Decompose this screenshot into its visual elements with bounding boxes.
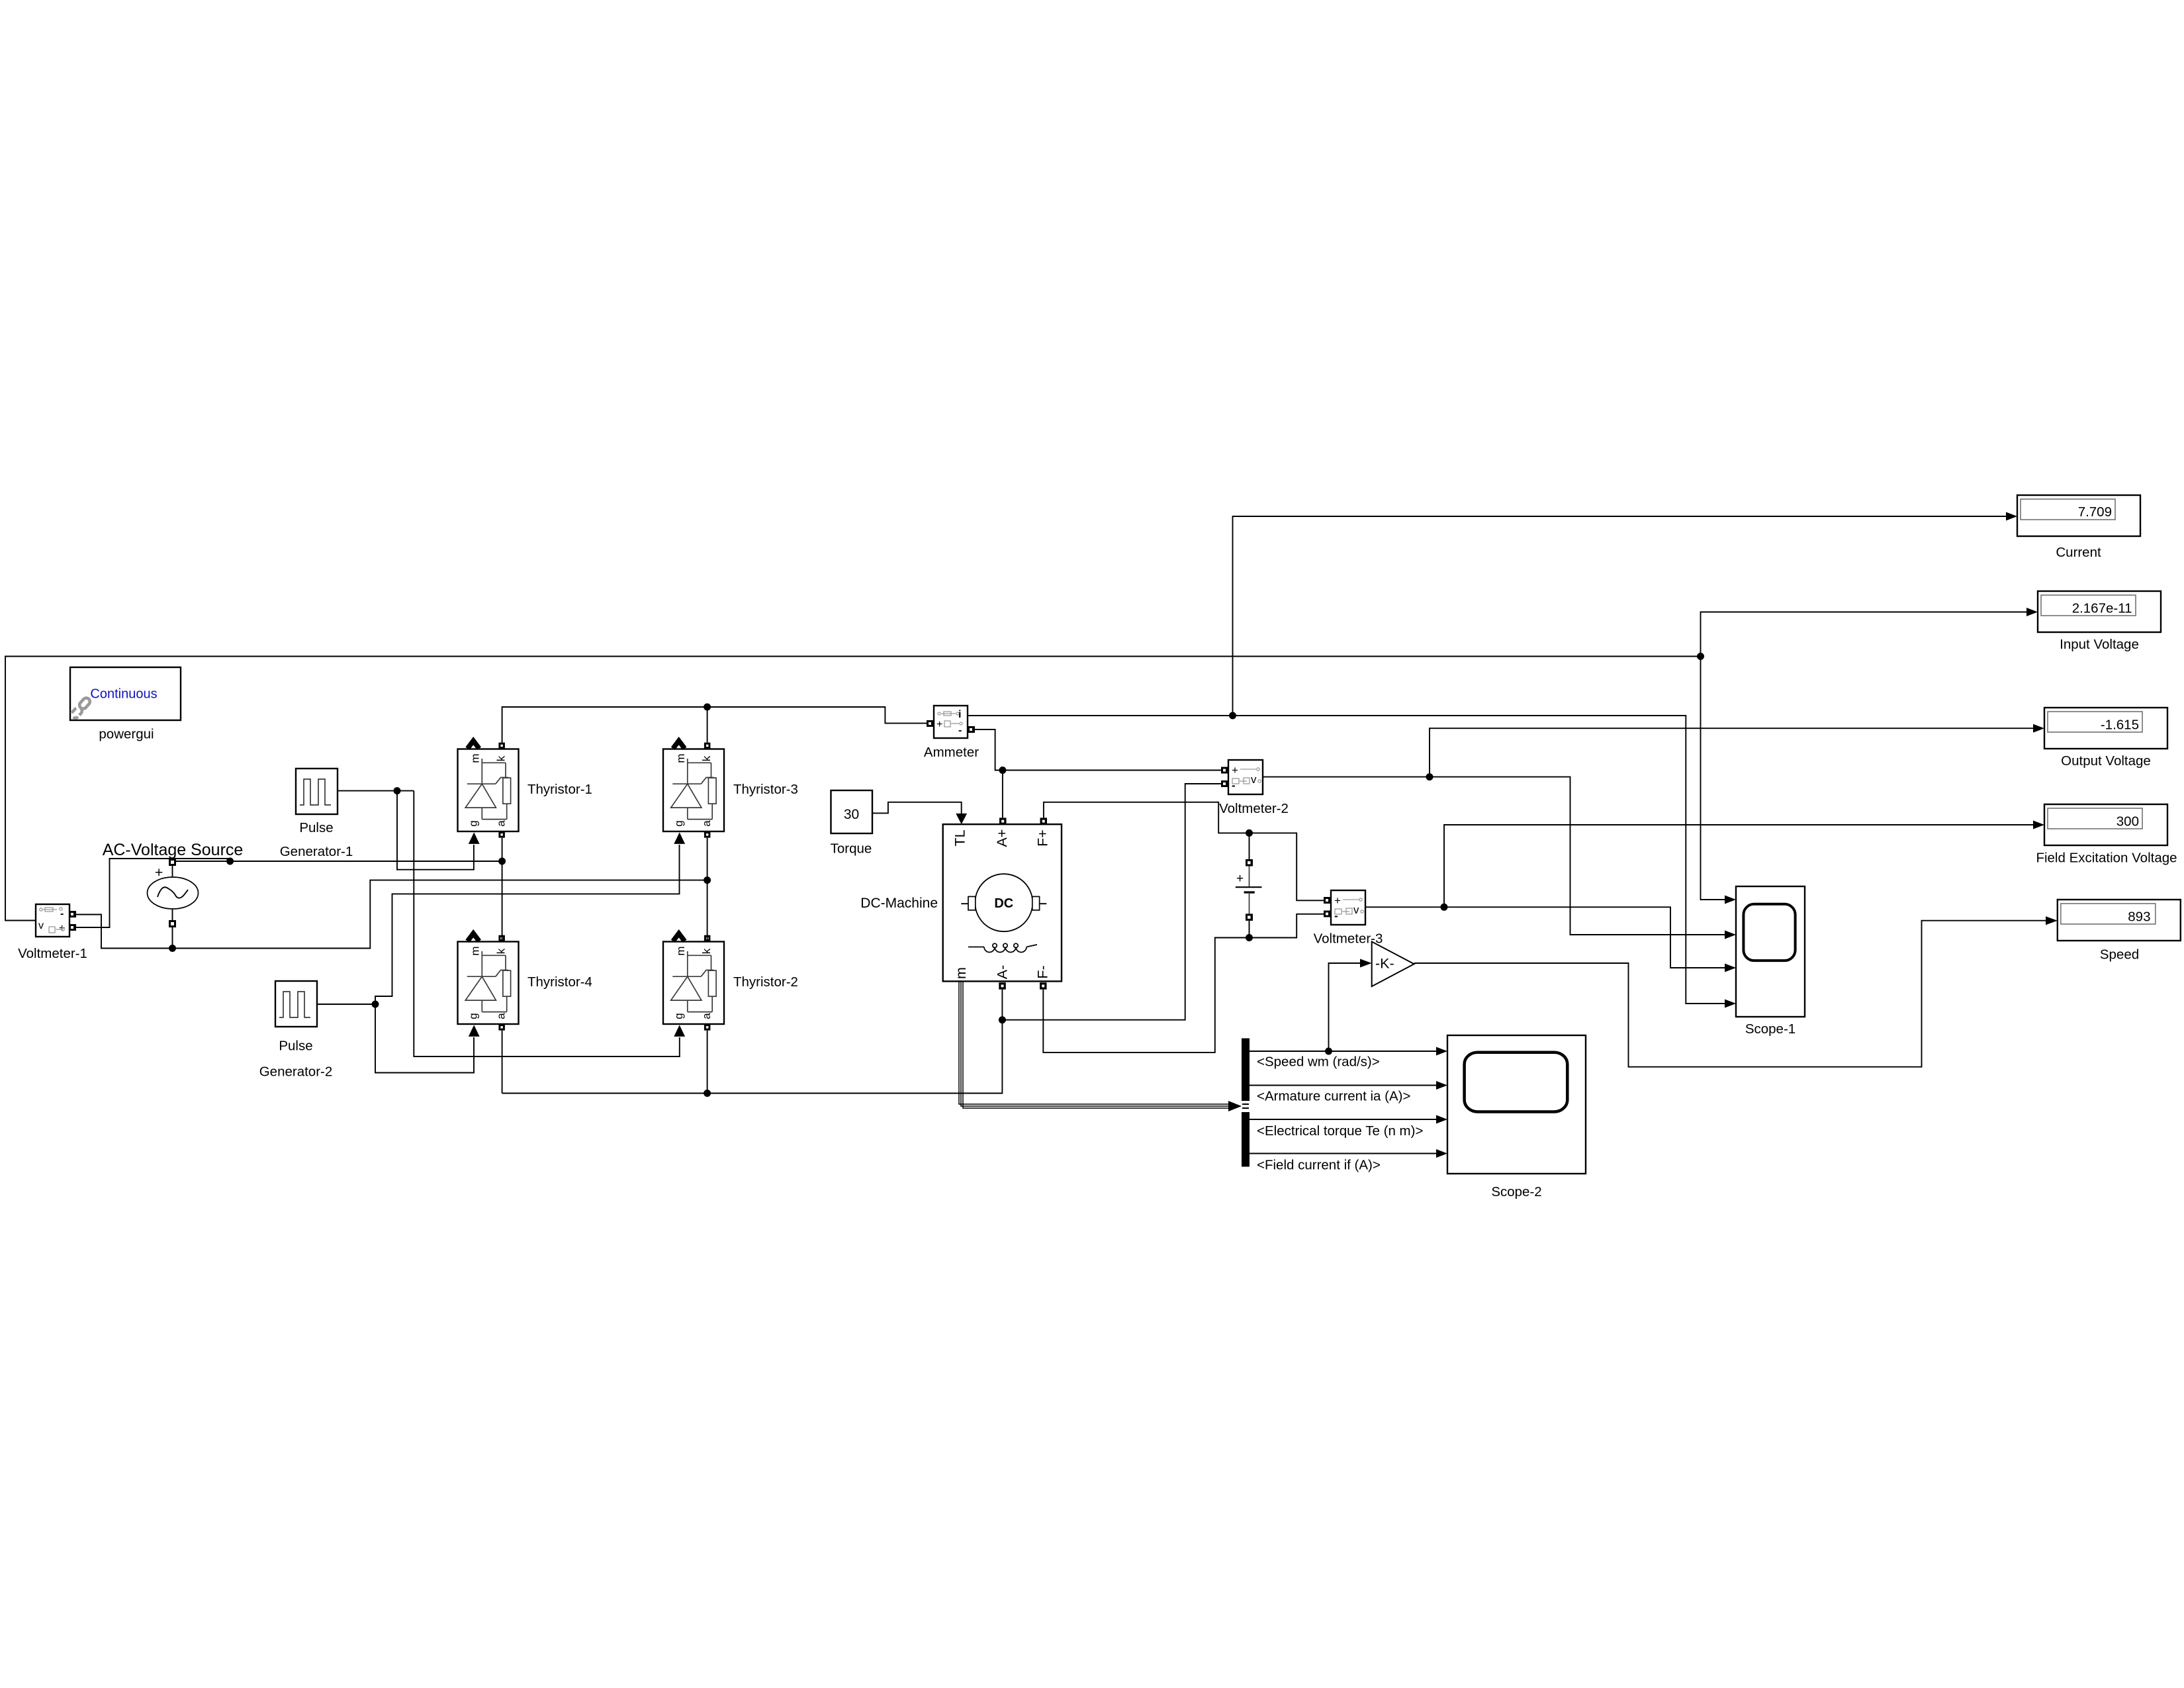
Voltmeter-2 <box>1221 760 1263 794</box>
wire: Pulse Generator-2 output <box>317 1004 375 1005</box>
wire: junction down to DC machine A+ <box>1002 771 1003 818</box>
svg-text:+: + <box>1236 872 1244 886</box>
Voltmeter-1 <box>36 904 76 937</box>
svg-text:Pulse: Pulse <box>299 820 333 835</box>
AC-Voltage Source <box>148 859 199 927</box>
svg-text:m: m <box>674 946 687 955</box>
svg-text:Field Excitation Voltage: Field Excitation Voltage <box>2036 851 2177 866</box>
node: AC top tap <box>226 858 234 865</box>
node: input voltage junction <box>1697 653 1704 660</box>
svg-text:a: a <box>700 1013 713 1019</box>
node: right leg junction <box>704 876 711 884</box>
wire: Voltmeter-1 output to Input Voltage line <box>5 657 1701 921</box>
Input Voltage display <box>2038 591 2161 632</box>
wire: AC source top to bridge left leg <box>176 861 502 862</box>
svg-text:Input Voltage: Input Voltage <box>2060 637 2139 652</box>
Scope-1 <box>1736 886 1805 1017</box>
svg-text:<Speed wm (rad/s)>: <Speed wm (rad/s)> <box>1257 1055 1380 1070</box>
DC-Machine <box>943 818 1062 989</box>
node: battery minus junction <box>1246 934 1253 941</box>
svg-text:Generator-2: Generator-2 <box>259 1064 333 1080</box>
thyristor Thyristor-4 <box>458 933 519 1037</box>
wire: Thyristor-3 cathode to top rail <box>707 707 708 743</box>
svg-text:v: v <box>1353 904 1359 916</box>
svg-text:300: 300 <box>2116 814 2139 829</box>
svg-text:g: g <box>672 1013 685 1019</box>
svg-text:+: + <box>936 719 942 730</box>
svg-text:+: + <box>1334 894 1341 907</box>
Pulse Generator-1 <box>296 769 338 814</box>
svg-text:m: m <box>469 753 481 763</box>
wire: bus output 4 to Scope-2 input 4 <box>1250 1153 1437 1154</box>
node: ammeter output junction <box>1229 712 1236 720</box>
svg-text:2.167e-11: 2.167e-11 <box>2072 601 2132 616</box>
svg-text:Thyristor-3: Thyristor-3 <box>733 782 798 797</box>
wire: bridge top rail to Ammeter <box>502 707 927 743</box>
node: Voltmeter-3 output junction <box>1441 904 1448 911</box>
wire: Ammeter output to Scope-1 input 4 <box>968 716 1725 1004</box>
wire: PG1 to Thyristor-2 gate <box>414 791 680 1056</box>
node: A+ junction <box>999 767 1006 774</box>
wire: battery minus net to Voltmeter-3 minus <box>1250 914 1324 938</box>
svg-text:k: k <box>700 755 713 761</box>
Voltmeter-3 <box>1324 890 1365 925</box>
Pulse Generator-2 <box>275 981 317 1027</box>
svg-text:m: m <box>469 946 481 955</box>
node: Voltmeter-2 output junction <box>1426 773 1433 780</box>
wire: bridge right leg vertical <box>707 838 708 942</box>
svg-text:893: 893 <box>2128 910 2150 925</box>
svg-text:+: + <box>1232 764 1238 776</box>
wire: junction up to Current display <box>1233 516 2007 716</box>
wire: Thyristor-2 anode to bottom rail <box>707 1031 708 1094</box>
svg-text:Thyristor-1: Thyristor-1 <box>527 782 592 797</box>
node: A- junction <box>999 1016 1006 1023</box>
thyristor Thyristor-1 <box>458 741 519 844</box>
svg-text:Torque: Torque <box>831 841 872 857</box>
powergui block <box>70 667 181 720</box>
node: AC bottom junction <box>169 945 176 952</box>
node: bottom rail junction <box>704 1090 711 1097</box>
svg-text:m: m <box>953 967 969 979</box>
svg-text:Thyristor-4: Thyristor-4 <box>527 974 592 990</box>
svg-text:DC: DC <box>994 896 1013 911</box>
svg-text:A+: A+ <box>994 829 1010 847</box>
wire: bridge left leg vertical <box>502 838 503 942</box>
wire: Pulse Generator-1 output <box>338 790 414 792</box>
wire: speed signal up to gain input <box>1329 963 1361 1051</box>
wire: PG2 to Thyristor-4 gate <box>375 1004 474 1073</box>
svg-text:-: - <box>958 725 962 736</box>
DC voltage source (battery) <box>1236 833 1262 937</box>
svg-text:+: + <box>155 865 163 880</box>
wire: junction up to Output Voltage display <box>1430 728 2034 776</box>
wire: DC machine A- to Voltmeter-2 minus <box>502 990 1003 1094</box>
svg-text:F-: F- <box>1035 965 1051 978</box>
svg-text:Generator-1: Generator-1 <box>280 844 353 859</box>
svg-text:TL: TL <box>952 829 968 846</box>
svg-text:F+: F+ <box>1035 829 1051 847</box>
wire: Voltmeter-3 output to Scope-1 input 3 <box>1365 907 1725 968</box>
node: speed signal junction <box>1325 1048 1332 1055</box>
node: PG2 junction <box>372 1001 379 1008</box>
Scope-2 <box>1447 1035 1586 1174</box>
svg-text:v: v <box>38 920 44 931</box>
Torque constant block <box>831 790 873 833</box>
Ammeter <box>927 706 975 738</box>
wire: gain output to Speed display <box>1414 921 2046 1067</box>
svg-text:k: k <box>494 755 507 761</box>
wire: DC machine F+ to battery plus rail <box>1044 802 1324 901</box>
svg-text:<Field current if (A)>: <Field current if (A)> <box>1257 1158 1381 1173</box>
bus selector <box>1242 1039 1250 1167</box>
svg-text:m: m <box>674 753 687 763</box>
svg-text:<Electrical torque Te (n m)>: <Electrical torque Te (n m)> <box>1257 1123 1423 1139</box>
thyristor Thyristor-3 <box>663 741 724 844</box>
Field Excitation Voltage display <box>2044 804 2167 845</box>
Speed display <box>2058 900 2181 941</box>
wire: junction up to Field Excitation Voltage display <box>1444 825 2034 907</box>
svg-text:Speed: Speed <box>2100 947 2139 962</box>
wire: bus output 2 to Scope-2 input 2 <box>1250 1085 1437 1086</box>
node: left leg junction <box>498 858 506 865</box>
svg-text:a: a <box>494 820 507 827</box>
svg-text:Continuous: Continuous <box>90 687 157 702</box>
node: battery plus junction <box>1246 829 1253 837</box>
wire: Voltmeter-1 plus tap to AC top <box>76 859 230 927</box>
wire: A- junction to Voltmeter-2 minus <box>1002 784 1221 1020</box>
svg-text:<Armature current ia (A)>: <Armature current ia (A)> <box>1257 1089 1410 1104</box>
thyristor Thyristor-2 <box>663 933 724 1037</box>
Output Voltage display <box>2044 708 2167 749</box>
node: PG1 junction <box>394 787 401 794</box>
svg-text:powergui: powergui <box>99 727 154 742</box>
svg-text:Current: Current <box>2056 545 2101 560</box>
wire: AC bottom to Voltmeter-1 minus <box>76 915 173 949</box>
wire: PG2 to Thyristor-3 gate <box>375 845 680 1004</box>
svg-text:7.709: 7.709 <box>2078 504 2112 520</box>
svg-text:Pulse: Pulse <box>279 1039 312 1054</box>
wire: junction down to Scope-1 input 1 <box>1701 657 1726 900</box>
svg-text:30: 30 <box>844 807 859 822</box>
wire: AC source bottom net <box>172 927 173 949</box>
svg-text:AC-Voltage Source: AC-Voltage Source <box>103 841 244 859</box>
svg-text:v: v <box>1251 773 1257 786</box>
wire: DC machine m to bus selector (triple line) <box>959 982 1242 1112</box>
Current display <box>2017 495 2140 536</box>
wire: Torque to DC machine TL <box>872 802 962 814</box>
svg-text:-1.615: -1.615 <box>2101 718 2139 733</box>
node: top rail junction <box>704 704 711 711</box>
svg-text:Scope-2: Scope-2 <box>1491 1184 1541 1199</box>
svg-text:-K-: -K- <box>1375 956 1394 972</box>
svg-text:Voltmeter-1: Voltmeter-1 <box>18 946 87 961</box>
wire: Voltmeter-2 output <box>1263 777 1725 935</box>
wire: AC bottom to bridge right leg <box>173 880 707 949</box>
svg-text:A-: A- <box>995 965 1011 980</box>
svg-text:DC-Machine: DC-Machine <box>860 896 938 911</box>
svg-text:g: g <box>672 820 685 826</box>
svg-text:Voltmeter-2: Voltmeter-2 <box>1219 801 1289 816</box>
wire: bus output 1 to Scope-2 input 1 <box>1250 1051 1437 1052</box>
wire: Ammeter minus to A+ and Voltmeter-2 plus <box>975 729 1221 771</box>
svg-text:k: k <box>700 948 713 954</box>
svg-text:Scope-1: Scope-1 <box>1745 1021 1796 1037</box>
svg-text:Thyristor-2: Thyristor-2 <box>733 974 798 990</box>
gain -K- <box>1372 942 1414 987</box>
svg-text:a: a <box>494 1013 507 1019</box>
svg-text:g: g <box>467 820 479 826</box>
svg-text:Output Voltage: Output Voltage <box>2061 753 2151 769</box>
wire: battery minus to DC machine F- <box>1043 938 1249 1053</box>
wire: junction up to Input Voltage display <box>1701 612 2028 657</box>
wire: PG1 to Thyristor-1 gate <box>397 791 474 870</box>
svg-text:k: k <box>494 948 507 954</box>
wire: bus output 3 to Scope-2 input 3 <box>1250 1119 1437 1120</box>
wire: Thyristor-4 anode to bottom rail <box>502 1031 503 1094</box>
svg-text:a: a <box>700 820 713 827</box>
svg-text:g: g <box>467 1013 479 1019</box>
svg-text:Ammeter: Ammeter <box>924 745 979 760</box>
